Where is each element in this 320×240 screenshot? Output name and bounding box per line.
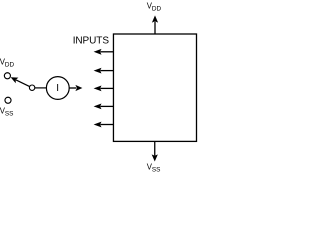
svg-text:VDD: VDD <box>0 58 15 69</box>
switch pole contact <box>29 85 34 90</box>
terminal VDD contact <box>4 73 10 79</box>
svg-text:VDD: VDD <box>147 1 162 12</box>
wire pole to current source <box>35 87 47 89</box>
svg-text:I: I <box>56 83 59 94</box>
IC box U1 <box>113 34 196 141</box>
wire VSS supply lead <box>154 141 156 155</box>
svg-text:INPUTS: INPUTS <box>73 36 110 47</box>
svg-text:VSS: VSS <box>147 162 161 173</box>
input arrow 5 <box>94 122 114 128</box>
input arrow 4 <box>94 104 114 110</box>
terminal VSS contact <box>5 97 11 103</box>
arrowhead VDD up <box>152 15 158 22</box>
current source I <box>46 77 69 100</box>
input arrow 3 <box>94 86 114 92</box>
arrowhead VSS down <box>152 154 158 161</box>
wire VDD supply lead <box>154 22 156 34</box>
input arrow 2 <box>94 68 114 74</box>
svg-text:VSS: VSS <box>0 107 13 118</box>
current source output arrow <box>69 85 82 91</box>
input arrow 1 <box>94 49 114 55</box>
switch arm with arrowhead toward VDD terminal <box>11 77 30 86</box>
